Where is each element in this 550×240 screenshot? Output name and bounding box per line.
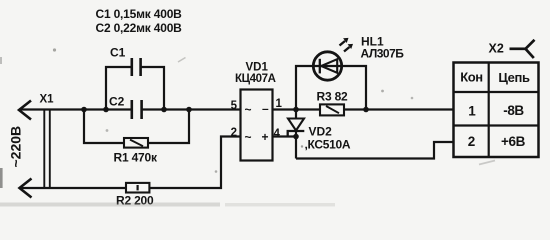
svg-text:+: + <box>262 130 269 144</box>
svg-text:1: 1 <box>276 98 283 110</box>
svg-text:R3 82: R3 82 <box>317 90 349 104</box>
svg-text:X1: X1 <box>40 94 55 106</box>
wire: X1 cable pair lines <box>44 110 50 189</box>
LED emission arrows <box>340 38 354 52</box>
node: mains-R1 right junction <box>186 107 192 113</box>
svg-text:C2: C2 <box>109 95 125 109</box>
wire: LED branch right drop <box>342 66 367 110</box>
svg-text:C2 0,22мк 400В: C2 0,22мк 400В <box>96 21 183 35</box>
svg-text:–: – <box>262 102 269 116</box>
LED HL1 <box>313 52 341 80</box>
svg-text:АЛ307Б: АЛ307Б <box>361 47 405 61</box>
svg-text:~: ~ <box>245 130 252 144</box>
svg-text:~: ~ <box>245 103 252 117</box>
svg-text:5: 5 <box>231 100 238 112</box>
bridge rectifier VD1 body <box>241 90 273 161</box>
svg-text:2: 2 <box>231 127 237 139</box>
node: mains-C1 left junction <box>103 107 109 113</box>
svg-text:1: 1 <box>468 104 476 119</box>
wire: top mains C2 to VD1 pin5 <box>142 108 241 110</box>
node: pin4-VD2 junction <box>293 134 299 140</box>
wire: VD1 pin4 to VD2 <box>273 135 297 137</box>
svg-text:Цепь: Цепь <box>498 70 530 85</box>
wire: R3 to X2 pin1 <box>344 108 454 110</box>
resistor R2 <box>126 183 149 193</box>
resistor R3 <box>320 104 344 115</box>
node: mains-C1 right junction <box>161 107 167 113</box>
svg-text:4: 4 <box>274 128 281 140</box>
wire: bottom mains X1 to R2 <box>20 187 127 189</box>
svg-text:X2: X2 <box>489 42 504 56</box>
svg-text:2: 2 <box>468 134 476 149</box>
wire: C1 branch right riser <box>141 67 164 110</box>
svg-text:VD1: VD1 <box>246 62 269 74</box>
capacitor C2 <box>132 100 142 119</box>
capacitor C1 <box>132 58 141 76</box>
scan artifacts <box>0 48 495 206</box>
wire: R1 branch right riser <box>148 110 189 144</box>
wire: bottom mains R2 to VD1 pin2 <box>149 137 240 189</box>
svg-text:R1 470к: R1 470к <box>114 151 158 165</box>
connector X2 table <box>454 63 539 158</box>
svg-text:,КС510А: ,КС510А <box>305 138 351 152</box>
wire: top mains X1 to C2 <box>19 108 131 110</box>
resistor R1 <box>124 138 148 148</box>
svg-text:~220В: ~220В <box>8 126 24 168</box>
svg-text:C1: C1 <box>110 46 126 60</box>
node: LED top junction <box>293 107 299 113</box>
zener diode VD2 <box>288 110 305 159</box>
wire: LED branch left riser <box>296 66 313 110</box>
svg-text:-8В: -8В <box>503 103 524 118</box>
connector X1 bottom arrow <box>20 179 32 198</box>
svg-text:КЦ407А: КЦ407А <box>235 73 276 85</box>
wire: R1 branch left drop <box>84 110 124 144</box>
wire: VD1 pin1 to R3 <box>273 108 321 110</box>
svg-text:VD2: VD2 <box>309 125 333 139</box>
connector X1 top arrow <box>19 101 31 120</box>
svg-text:+6В: +6В <box>501 134 526 149</box>
node: mains-R1 left junction <box>81 107 87 113</box>
svg-text:Кон: Кон <box>460 70 483 85</box>
wire: C1 branch left riser <box>106 67 132 110</box>
connector X2 fork symbol <box>510 40 535 58</box>
node: LED-R3 right junction <box>363 107 369 113</box>
wire: +6В run to X2 pin2 <box>296 142 454 159</box>
svg-text:C1 0,15мк 400В: C1 0,15мк 400В <box>96 7 183 21</box>
